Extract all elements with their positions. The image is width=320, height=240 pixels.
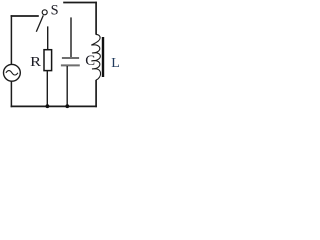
wire left lower: [10, 81, 12, 107]
inductor L coil: [91, 34, 100, 80]
switch blade: [36, 15, 43, 31]
junction dot capacitor-bottom: [65, 104, 69, 108]
wire top-right: [63, 2, 97, 4]
wire bottom: [11, 105, 97, 107]
resistor R box: [44, 50, 52, 71]
capacitor bottom lead: [66, 66, 68, 107]
svg-text:L: L: [111, 56, 120, 71]
resistor bottom lead: [46, 71, 48, 107]
junction dot resistor-bottom: [46, 104, 50, 108]
AC source circle: [4, 64, 21, 81]
svg-text:S: S: [51, 3, 59, 19]
capacitor top plate: [62, 57, 79, 59]
capacitor top lead: [70, 17, 72, 57]
svg-text:R: R: [30, 55, 42, 70]
switch terminal circle: [42, 10, 47, 15]
inductor core bar: [102, 37, 104, 77]
wire left upper: [10, 15, 12, 64]
svg-text:C: C: [85, 53, 95, 69]
capacitor bottom plate: [61, 64, 80, 66]
wire top-left: [11, 15, 39, 17]
wire right lower: [95, 80, 97, 107]
wire right upper: [95, 2, 97, 35]
AC source sine wave: [6, 71, 18, 75]
resistor top lead: [47, 26, 49, 49]
